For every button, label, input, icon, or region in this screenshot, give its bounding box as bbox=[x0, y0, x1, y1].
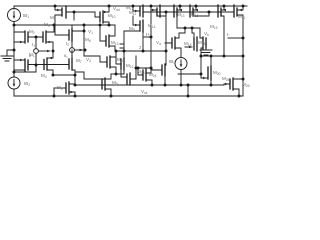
transistor P1 bbox=[151, 5, 166, 17]
wire z vertical bbox=[142, 32, 144, 51]
terminal arrow mid bbox=[74, 49, 83, 51]
arrow M21 source bbox=[239, 9, 243, 11]
svg-text:V2: V2 bbox=[86, 57, 91, 63]
wire z column x124 bbox=[123, 31, 125, 51]
arrows bbox=[13, 9, 242, 93]
arrow M5 source bbox=[57, 9, 61, 11]
wire M3 drain to bias bbox=[53, 25, 55, 32]
svg-text:M10: M10 bbox=[108, 13, 116, 19]
svg-text:M2: M2 bbox=[57, 85, 63, 91]
transistor M23 bbox=[138, 68, 152, 85]
wire bias line y25 bbox=[14, 24, 115, 26]
svg-text:M12: M12 bbox=[126, 63, 134, 69]
svg-text:M24: M24 bbox=[149, 72, 157, 78]
svg-text:M14: M14 bbox=[148, 23, 156, 29]
transistor M15 Va bbox=[165, 28, 185, 58]
svg-text:I2: I2 bbox=[66, 41, 69, 47]
arrow M10 source bbox=[104, 11, 108, 13]
arrow M22 source bbox=[71, 91, 75, 93]
node dot bias left bbox=[13, 24, 16, 27]
ground symbol mid bbox=[200, 48, 212, 55]
current source IB3 bbox=[175, 58, 187, 70]
transistor M2 upper-left bbox=[14, 31, 36, 43]
wire x node down bbox=[52, 51, 54, 58]
transistor M1 lower-left bbox=[14, 59, 28, 71]
arrow M9 source bbox=[135, 24, 139, 26]
arrow M1 drain bbox=[20, 59, 24, 61]
arrow M18 source bbox=[189, 46, 193, 48]
transistor M7 lower mid bbox=[69, 50, 75, 85]
transistor M6 mid bbox=[69, 25, 84, 48]
node dot bottom rail bbox=[53, 95, 56, 98]
wire IB2 node bbox=[14, 71, 36, 73]
svg-text:I1: I1 bbox=[32, 42, 35, 48]
transistor M20 bbox=[201, 56, 211, 85]
wire M9 drain path bbox=[75, 72, 105, 79]
transistor M12 bbox=[116, 51, 130, 85]
svg-text:M15: M15 bbox=[191, 12, 199, 18]
current source IB1 bbox=[8, 9, 21, 22]
ground symbol left bbox=[1, 50, 14, 61]
wire left bias vertical bbox=[13, 25, 15, 77]
arrow P4 source bbox=[223, 9, 227, 11]
svg-text:V1: V1 bbox=[88, 29, 93, 35]
arrow M26 gate bbox=[225, 83, 229, 85]
svg-text:M25: M25 bbox=[222, 76, 230, 82]
svg-text:M7: M7 bbox=[76, 58, 82, 64]
arrow M3 source bbox=[49, 41, 53, 43]
arrow terminal left bbox=[47, 50, 51, 53]
svg-text:I-: I- bbox=[227, 32, 230, 37]
arrow M11 source bbox=[135, 10, 139, 12]
svg-text:Vb: Vb bbox=[204, 31, 209, 37]
transistor M24 bbox=[162, 64, 166, 85]
svg-text:M13: M13 bbox=[177, 12, 185, 18]
node x vertical with terminal bbox=[35, 37, 37, 72]
svg-text:a: a bbox=[29, 54, 31, 58]
transistor M18 bbox=[185, 28, 197, 51]
svg-text:M6: M6 bbox=[85, 37, 91, 43]
wire cascode vertical x84 bbox=[83, 25, 85, 56]
wire y62 bbox=[130, 56, 162, 79]
arrow M2 source bbox=[20, 41, 24, 43]
svg-text:IB2: IB2 bbox=[24, 81, 30, 87]
terminal circle mid bbox=[70, 48, 75, 53]
arrow P3 source bbox=[195, 9, 199, 11]
wire y86 to rail bbox=[187, 85, 189, 96]
arrow IB3 bbox=[180, 64, 183, 67]
current source IB2 bbox=[8, 77, 20, 89]
svg-text:M20: M20 bbox=[213, 70, 221, 76]
svg-text:M8: M8 bbox=[117, 57, 123, 63]
transistor M9b bottom mid bbox=[102, 74, 111, 96]
wire I+ stub bbox=[144, 36, 151, 38]
svg-text:I+: I+ bbox=[146, 32, 150, 37]
transistor P4 M19 bbox=[218, 5, 224, 56]
terminal circle left bbox=[34, 49, 39, 54]
wire gates line bbox=[28, 64, 69, 66]
transistor M26 bbox=[224, 78, 243, 96]
wire node y86 bbox=[75, 84, 224, 86]
wire diode column x166 bbox=[165, 12, 167, 65]
transistor M11c center bbox=[100, 25, 115, 51]
node dot gate line bbox=[73, 11, 76, 14]
wire Vdd top rail bbox=[14, 5, 247, 7]
arrow M4 drain bbox=[49, 57, 53, 59]
arrow terminal mid bbox=[80, 49, 84, 52]
transistor M4 bbox=[44, 58, 53, 75]
wire Vss bottom rail bbox=[14, 95, 243, 97]
transistor M16 Vb bbox=[200, 28, 206, 78]
transistor M9 second pmos bbox=[124, 16, 143, 32]
wire node y74 bbox=[111, 73, 124, 75]
svg-text:M16: M16 bbox=[198, 40, 206, 46]
arrow P1 source bbox=[152, 9, 156, 11]
node dot z wire bbox=[115, 50, 118, 53]
arrow M20 source bbox=[203, 77, 207, 79]
svg-text:B1: B1 bbox=[64, 54, 68, 59]
transistor M10 top bbox=[95, 6, 109, 25]
wire y74 right bbox=[178, 73, 201, 75]
svg-text:IB1: IB1 bbox=[23, 13, 29, 19]
svg-text:M4: M4 bbox=[41, 73, 47, 79]
svg-text:M2: M2 bbox=[29, 29, 35, 35]
svg-text:Vdd: Vdd bbox=[113, 6, 120, 12]
transistor M22 bottom-left bbox=[54, 82, 75, 96]
wire M8 gate feed bbox=[84, 56, 107, 62]
wire right edge vertical bbox=[242, 15, 244, 96]
transistor M5 top-left pmos bbox=[55, 6, 69, 35]
arrow P2 source bbox=[179, 9, 183, 11]
svg-text:M19: M19 bbox=[210, 24, 218, 30]
wire terminal node down bbox=[71, 52, 73, 58]
node dot left column bbox=[13, 49, 16, 52]
svg-text:M3: M3 bbox=[44, 22, 50, 28]
node dot y86 bbox=[151, 84, 154, 87]
wire z line y52 bbox=[115, 50, 166, 52]
transistor M21 bbox=[234, 5, 243, 17]
node dot right bbox=[200, 55, 203, 58]
transistor M8b center-low bbox=[107, 52, 116, 74]
wire source join y75 bbox=[53, 74, 75, 76]
wire M5 gate line bbox=[66, 12, 95, 20]
svg-text:Va: Va bbox=[156, 40, 161, 46]
node dot center bbox=[135, 67, 138, 70]
wire bias y28 right bbox=[177, 27, 200, 29]
svg-text:M13: M13 bbox=[111, 40, 119, 46]
transistor M3 upper-right bbox=[36, 31, 54, 51]
wire I- stub bbox=[228, 37, 243, 39]
transistor P3 bbox=[190, 5, 209, 17]
transistor bars bold overlay bbox=[25, 5, 237, 94]
arrow IB2 bbox=[13, 84, 16, 87]
transistor P2 bbox=[174, 5, 180, 28]
wire gate line2 bbox=[143, 11, 234, 13]
node dot rail bbox=[54, 5, 57, 8]
svg-text:Vss: Vss bbox=[141, 89, 148, 95]
arrow IB1 bbox=[13, 16, 16, 19]
wire I+ vertical bbox=[150, 6, 152, 73]
transistor M11 top pmos bbox=[133, 5, 143, 17]
svg-text:M18: M18 bbox=[184, 41, 192, 47]
terminal arrow left bbox=[38, 50, 48, 52]
svg-text:IB3: IB3 bbox=[169, 59, 175, 65]
svg-text:z: z bbox=[139, 45, 142, 50]
wire stubs x124 bbox=[120, 44, 124, 48]
transistor T_d bbox=[121, 70, 130, 85]
wire node y56 bbox=[201, 55, 243, 57]
